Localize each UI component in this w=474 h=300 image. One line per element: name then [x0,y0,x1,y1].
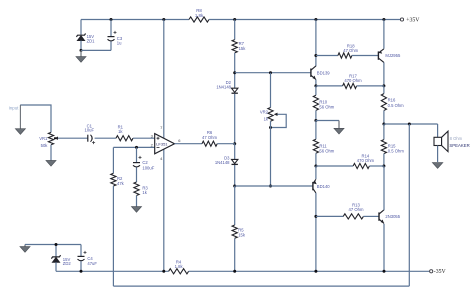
wire R11 top [315,121,317,140]
zener ZD1 [76,34,95,44]
svg-text:0.5 Ohm: 0.5 Ohm [388,148,405,153]
wire R17 right [357,85,384,87]
svg-text:-35V: -35V [434,269,447,275]
junction Q1 collector/top [314,18,317,21]
wire R15 top [383,124,385,140]
wire C1 to R1 [95,137,116,139]
junction R11/R14/BD140 emitter [314,165,317,168]
wire output row [384,123,438,125]
wire +35V top rail (R8 to +35V terminal) [209,19,400,21]
junction Q3 emitter/top [382,18,385,21]
wire R3 to ground [136,196,138,207]
wire BD139 collector to +35V rail [315,20,317,67]
terminal +35V [400,18,420,24]
pin 6 label [178,138,181,143]
zener ZD2 [51,255,71,266]
wire R16 to output node [383,111,385,125]
wire C4 top [80,245,82,257]
junction BD139 collector/R18 [314,54,317,57]
junction C2/pin2 [135,146,138,149]
junction R7/top [233,18,236,21]
wire C3 top [110,20,112,37]
wire R2 to feedback rail [112,186,114,286]
wire ZD1 cathode to rail [80,20,82,35]
svg-text:1.8k: 1.8k [175,264,184,269]
wire op-amp pin7 to +35V node [163,20,165,139]
resistor R11 [313,139,335,153]
svg-text:ZD2: ZD2 [63,261,72,266]
wire op-amp pin2 row [113,146,154,148]
wire R16 top [383,86,385,94]
junction R15/R14/2N3055 collector [382,165,385,168]
ground (below ZD1) [76,50,86,62]
ground (negative clamp) [20,245,30,253]
resistor R15 [381,140,404,154]
svg-text:MJ2955: MJ2955 [385,53,401,58]
speaker LS1 [434,131,470,151]
wire R10 top [315,86,317,95]
transistor Q3 MJ2955 [378,49,401,63]
diode D3 1N4148 [215,156,238,165]
junction VR2 top [269,71,272,74]
wire R18 right to MJ2955 base [352,55,379,57]
svg-text:10uF: 10uF [85,128,95,133]
junction pin4/-rail [162,270,165,273]
svg-text:50k: 50k [41,143,49,148]
svg-text:VR1: VR1 [39,136,48,141]
capacitor C1 [85,123,96,144]
wire R13 left [316,215,343,217]
junction BD140 collector/R13 [314,215,317,218]
wire R15 bottom [383,154,385,166]
wire C2 top [136,147,138,162]
svg-text:1u: 1u [117,40,122,45]
pin 2 label [151,143,154,148]
ground (input) [15,105,25,134]
diode D2 1N4148 [216,80,238,93]
ground (driver midpoint) [334,121,344,135]
svg-text:47 Ohm: 47 Ohm [202,135,217,140]
wire op-amp pin4 to negative node [163,149,165,271]
resistor R7 [232,40,246,53]
wire -35V rail (R4 to terminal) [189,270,430,272]
wire R14 left [316,165,353,167]
wire C2 to R3 [136,168,138,183]
op-amp U1 LF351 [155,134,175,154]
resistor R16 [381,94,404,111]
wire feedback rail [113,285,409,287]
wire C3 bottom [110,42,112,51]
resistor R3 [134,182,149,196]
ground (below VR1) [46,161,56,167]
svg-text:0.5 Ohm: 0.5 Ohm [388,103,405,108]
svg-text:BD140: BD140 [317,184,330,189]
junction ZD2 top [55,243,58,246]
wire ground to C4 top [25,244,81,246]
node Input [9,106,20,111]
wire C4 bottom [80,261,82,271]
transistor Q1 BD139 [311,66,330,80]
junction output node [382,123,385,126]
svg-text:15k: 15k [239,46,247,51]
resistor R4 [169,259,189,274]
wire op-amp output [175,143,203,145]
svg-text:1N4148: 1N4148 [216,85,231,90]
wire R7 to D2 [234,53,236,88]
svg-text:470 Ohm: 470 Ohm [344,78,362,83]
wire BD139 emitter [315,80,317,86]
wire MJ2955 collector [383,62,385,86]
svg-text:LF351: LF351 [156,141,168,146]
svg-text:470 Ohm: 470 Ohm [357,158,375,163]
junction D3/bias row [233,185,236,188]
wire -35V rail (ZD2 corner to R4) [56,270,169,272]
resistor R14 [353,154,374,169]
svg-text:BD139: BD139 [317,70,330,75]
wire R18 left [316,55,338,57]
wire VR2 wiper loop [271,114,287,127]
wire D2 to output node [234,94,236,144]
wire ZD1 anode to ground node [80,41,82,51]
svg-text:47k: 47k [117,181,125,186]
resistor R13 [343,202,364,219]
wire R6 to diode column [217,143,235,145]
wire R10 to tee [315,110,317,120]
junction BD140/-rail [314,270,317,273]
wire ZD1-C3 bottom [81,49,111,51]
svg-text:1N4148: 1N4148 [215,160,230,165]
junction pin7/top [162,18,165,21]
wire BD140 collector [315,193,317,271]
svg-text:15k: 15k [238,232,246,237]
wire VR2 top [270,73,272,108]
wire R11 bottom [315,153,317,166]
junction ZD1/C3/ground [80,49,83,52]
wire ZD2 column top [55,245,57,257]
svg-text:47 Ohm: 47 Ohm [349,207,364,212]
terminal -35V [430,269,447,275]
pin 4 label [160,156,163,161]
svg-text:Input: Input [9,106,20,111]
svg-text:2N3055: 2N3055 [385,214,400,219]
wire BD140 emitter [315,166,317,179]
wire R13 right to 2N3055 base [363,215,379,217]
svg-text:100uF: 100uF [142,165,154,170]
junction MJ2955 collector/R17/R16 [382,84,385,87]
svg-text:56 Ohm: 56 Ohm [319,148,334,153]
junction BD139 emitter/R17/R10 [314,84,317,87]
svg-text:VR2: VR2 [260,109,269,114]
wire speaker to ground [437,146,439,163]
wire bias bottom row (D3 to BD140 base) [235,185,313,187]
wire ZD2 anode to -rail corner [55,262,57,271]
junction R5/-rail [233,270,236,273]
junction feedback/output [408,123,411,126]
pin 7 label [160,125,163,130]
junction VR2 wiper/bottom [269,126,272,129]
svg-text:SPEAKER: SPEAKER [449,143,469,148]
wire D3 to bias row [234,165,236,186]
wire bias top row (R7 junction to BD139 base) [235,72,311,74]
pin 3 label [151,133,154,138]
resistor R18 [338,43,359,58]
capacitor C2 [133,156,155,171]
wire R17 left [316,85,343,87]
wire input to VR1 [20,105,51,132]
resistor R8 [189,8,209,22]
capacitor C4 [78,251,98,266]
junction 2N3055/-rail [383,270,386,273]
wire +35V top rail (left segment to R8) [81,19,189,21]
junction VR2/bias bottom row [269,185,272,188]
wire R5 to -35V rail [234,238,236,271]
svg-text:47uF: 47uF [87,261,97,266]
junction R7/D2/base-wire [233,71,236,74]
svg-text:47 Ohm: 47 Ohm [343,48,358,53]
wire R14 right [369,165,384,167]
capacitor C3 [108,31,123,45]
svg-text:8 Ohm: 8 Ohm [450,136,463,141]
svg-text:+35V: +35V [406,18,420,24]
resistor R10 [313,95,335,110]
svg-text:1.8k: 1.8k [195,13,204,18]
potentiometer VR1 [39,132,58,148]
junction C4/-rail [80,270,83,273]
wire VR1 bottom [50,145,52,161]
wire R1 to op-amp pin3 [133,137,155,139]
svg-text:56 Ohm: 56 Ohm [319,105,334,110]
wire feedback column [408,124,410,286]
wire pin2 corner down (R2 column) [112,147,114,173]
resistor R17 [343,73,363,88]
wire speaker drop [437,124,439,137]
wire 2N3055 collector [383,166,385,210]
junction C3/top [110,18,113,21]
potentiometer VR2 [260,108,278,122]
wire output node to D3 [234,144,236,160]
wire MJ2955 emitter to +35V rail [383,20,385,49]
ground (speaker) [432,163,442,169]
resistor R6 [202,130,217,146]
wire 2N3055 emitter to -35V rail [383,224,385,271]
svg-text:ZD1: ZD1 [87,39,96,44]
junction R10/R11/ground tee [314,119,317,122]
transistor Q4 2N3055 [379,210,401,224]
junction D2/R6/D3 output node [233,142,236,145]
resistor R2 [111,173,125,186]
wire VR2 bottom to bias row [270,121,272,186]
ground (below R3) [132,207,142,213]
resistor R1 [116,124,133,140]
wire VR1 wiper to C1 [58,137,88,139]
wire bias row to R5 [234,186,236,225]
wire R7 top [234,20,236,40]
resistor R5 [232,225,246,238]
transistor Q2 BD140 [313,179,330,193]
wire ground tee [316,120,339,122]
